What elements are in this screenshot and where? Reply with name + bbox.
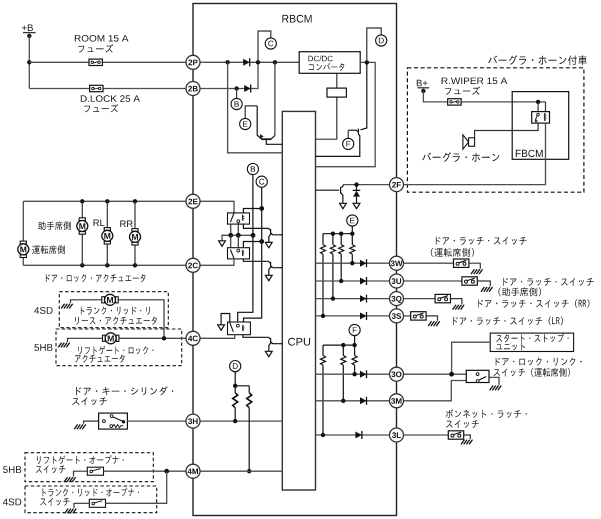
node 4SD join — [162, 336, 166, 340]
wire unlock relay coil top to rail C — [243, 242, 261, 248]
switch liftgate opener — [87, 467, 103, 475]
node opener join — [164, 469, 169, 474]
wire 3U line — [316, 280, 390, 282]
wire B+ to relay — [423, 91, 545, 102]
wire 3W line — [316, 262, 390, 264]
ground — [64, 477, 76, 482]
transistor Q5 (2F driver) — [316, 185, 344, 204]
node E — [240, 118, 251, 129]
fuse R.WIPER 15 A — [448, 99, 461, 105]
diode on 2B rail — [244, 85, 251, 93]
fuse ROOM 15 A — [89, 59, 102, 65]
ground — [481, 287, 493, 292]
wire 2C bus — [23, 264, 186, 266]
ground — [428, 321, 440, 326]
5HB dashed box (liftgate lock actuator) — [56, 329, 182, 366]
connector 3H — [186, 414, 200, 428]
label burglar horn equipped car — [488, 55, 587, 65]
wire 4M to CPU — [200, 470, 282, 472]
resistor pull-up to 3O line — [354, 345, 356, 374]
node 2P-CPU feed junction — [225, 60, 229, 64]
wire 2E bus — [23, 200, 186, 202]
junction 2E bus / RL motor — [105, 199, 109, 203]
ground — [453, 305, 465, 310]
FBCM box — [512, 92, 569, 160]
wire start stop unit to 3O line — [452, 342, 491, 374]
junction 2E bus / RR motor — [133, 199, 137, 203]
transistor Q4 (release driver) — [266, 337, 278, 351]
wire 2F line — [343, 184, 389, 186]
FBCM label — [516, 150, 543, 157]
connector 3O — [390, 367, 404, 381]
ground — [74, 424, 86, 429]
connector 2E — [186, 194, 200, 208]
node E (pull-up) — [347, 215, 358, 226]
wire 3O to switch — [404, 373, 467, 375]
ground — [490, 386, 502, 391]
node D (bottom) — [230, 361, 241, 372]
label door lock actuator — [46, 274, 145, 282]
wire 2C to unlock relay — [200, 259, 234, 265]
ground — [471, 269, 483, 274]
diode 3U — [360, 277, 367, 285]
wire 3O line — [316, 373, 390, 375]
wire lock relay coil top to rail C — [243, 209, 261, 213]
resistor pull-up to 3L line — [322, 345, 324, 435]
wire liftgate opener to 4M — [104, 470, 187, 472]
motor front passenger door lock actuator — [77, 218, 88, 234]
connector 3M — [390, 394, 404, 408]
wire +B down to 2B corner — [28, 36, 30, 89]
fuse D.LOCK 25 A — [90, 85, 103, 91]
wire 3Q to switch — [404, 298, 436, 300]
node diode join on 2P — [256, 60, 260, 64]
junction 2C bus / RL motor — [105, 263, 109, 267]
start stop unit box — [490, 333, 573, 351]
diode on 2P rail — [243, 58, 250, 66]
wire 3H to CPU — [200, 420, 282, 422]
relay release (near 4C) — [228, 322, 251, 335]
node start-stop junction — [449, 372, 454, 377]
wire relay pins from B+ — [537, 102, 539, 112]
diode 3O — [360, 370, 367, 378]
motor RL door lock actuator — [102, 228, 113, 244]
switch door latch (LR) — [411, 312, 426, 320]
wire 3M line — [316, 400, 390, 402]
connector 3L — [390, 428, 404, 442]
connector 3S — [390, 309, 404, 323]
wire left leg — [22, 201, 24, 265]
switch trunk lid opener — [89, 499, 105, 507]
ground (trunk opener) — [74, 503, 89, 508]
connector 2P — [186, 55, 200, 69]
wire relay common bus with ground arrow — [222, 235, 253, 241]
node 2F diode junction — [354, 182, 358, 186]
connector 2C — [186, 258, 200, 272]
node C (relay section) — [256, 176, 267, 187]
relay unlock (lower, mirrored) — [228, 248, 250, 259]
diode 3W — [360, 259, 367, 267]
connector 2F — [390, 178, 404, 192]
connector 2B — [186, 82, 200, 96]
wire 2B rail — [29, 88, 193, 90]
wire lock relay pins to common bus — [231, 223, 239, 236]
wire release relay coil bottom to Q4 — [243, 335, 266, 338]
resistor pull-up to 3M line — [342, 345, 344, 401]
wire unlock relay coil bottom to Q3 — [243, 259, 266, 261]
wire 3L line — [316, 434, 390, 436]
resistor pull-up to 3U line — [340, 234, 342, 281]
motor RR door lock actuator — [130, 229, 141, 245]
RBCM module box — [193, 4, 397, 516]
wire stub to circled B — [236, 89, 238, 99]
diode 3S — [360, 312, 367, 320]
ground — [461, 440, 473, 445]
ground arrow — [265, 275, 272, 280]
wire F pull-up bus — [354, 335, 356, 345]
junction 2E bus / passenger motor — [80, 199, 84, 203]
ground arrow — [265, 351, 272, 356]
horn speaker symbol — [463, 135, 469, 149]
node B — [231, 98, 242, 109]
label burglar horn — [422, 152, 499, 162]
wire DC/DC output — [316, 62, 376, 166]
diode 3Q — [360, 295, 367, 303]
junction 2C bus / passenger motor — [80, 263, 84, 267]
+B terminal — [23, 32, 36, 34]
wire 2P rail — [29, 61, 299, 63]
wire down to pass transistor collector — [274, 62, 276, 135]
wire lock relay coil bottom to Q2 — [243, 224, 266, 228]
wire 3W to switch — [404, 262, 454, 264]
wire 3U to switch — [404, 280, 462, 282]
CPU box — [282, 111, 315, 490]
ground arrow — [265, 242, 272, 247]
wire 2E to lock relay — [200, 201, 234, 213]
wire release relay arm to ground arrow — [221, 314, 230, 325]
connector 3W — [390, 256, 404, 270]
ground (trunk release) — [71, 300, 79, 303]
node +B/2P junction — [27, 60, 31, 64]
burglar horn dashed enclosure — [407, 68, 584, 192]
wire to circled D — [367, 28, 381, 62]
ground arrow — [353, 203, 360, 208]
node B (relay section) — [247, 163, 258, 174]
4SD dashed box (trunk lid opener switch) — [25, 486, 157, 513]
wire 3M riser to switch — [404, 381, 467, 401]
node F (pull-up) — [349, 324, 360, 335]
capacitor box below DC/DC — [327, 88, 346, 97]
DC/DC converter box — [299, 52, 360, 74]
+B label — [22, 25, 33, 32]
ground arrow — [340, 203, 347, 208]
resistor D-3H — [234, 386, 236, 421]
wire 3Q line — [316, 298, 390, 300]
label door key cylinder switch — [76, 386, 173, 395]
connector 3U — [390, 274, 404, 288]
resistor pull-up to 3W line — [351, 234, 353, 264]
motor liftgate lock actuator — [103, 333, 119, 344]
wire 4C to release relay — [200, 335, 235, 339]
ground — [61, 304, 72, 309]
transistor Q6 (DC/DC switch) — [316, 62, 367, 156]
resistor D-4M — [235, 386, 249, 471]
resistor pull-up to 3Q line — [332, 234, 334, 299]
motor driver door lock actuator — [18, 241, 29, 257]
node F (DC/DC) — [347, 130, 349, 139]
4SD dashed box (trunk lid release actuator) — [59, 292, 168, 328]
switch bonnet latch — [448, 431, 463, 439]
ground — [65, 509, 77, 514]
connector 4C — [186, 331, 200, 345]
node B+ junction at relay — [536, 100, 540, 104]
wire 2P to CPU power feed — [228, 62, 283, 153]
node 2B diode junction — [234, 86, 238, 90]
resistor pull-up to 3S line — [322, 234, 324, 316]
diode 3L — [355, 431, 362, 439]
wire 3L to switch — [404, 434, 449, 436]
wire to circled C — [258, 31, 271, 62]
transistor Q1 (CPU power, PNP) — [257, 106, 282, 144]
wire relay switch to horn — [475, 123, 538, 138]
motor trunk lid release actuator — [102, 294, 118, 305]
wire DC/DC bottom to capacitor to CPU — [316, 73, 337, 139]
wire E to Q1 base — [245, 106, 257, 119]
transistor Q2 (lock driver) — [266, 228, 278, 242]
relay lock (upper) — [228, 213, 250, 224]
wire 3S to switch — [404, 315, 411, 317]
switch door key cylinder — [99, 413, 128, 429]
5HB dashed box (liftgate opener switch) — [25, 453, 153, 482]
ground — [58, 343, 69, 348]
wire E pull-up bus — [351, 226, 353, 234]
diode (clamp, pointing up) — [356, 185, 358, 191]
connector 3Q — [390, 292, 404, 306]
ground arrow — [219, 241, 226, 246]
wire relay coil to 2F — [404, 123, 546, 185]
wire unlock relay pins to common bus — [231, 235, 239, 249]
wire D stub — [234, 371, 236, 386]
node D — [376, 35, 387, 46]
CPU label — [288, 338, 310, 346]
wire key cylinder to 3H — [127, 420, 186, 422]
wire 3S line — [316, 315, 390, 317]
switch door latch (driver) — [454, 259, 469, 267]
ground (key cylinder) — [84, 421, 99, 424]
switch door lock link (driver) — [466, 370, 489, 382]
ground (liftgate lock) — [68, 338, 80, 342]
ground (liftgate opener) — [74, 471, 88, 476]
wire motor stems — [82, 201, 135, 265]
wire trunk opener riser to 4M line — [106, 471, 167, 503]
junction 2C bus / RR motor — [133, 263, 137, 267]
ground arrow — [218, 325, 225, 330]
transistor Q3 (unlock driver) — [266, 261, 278, 275]
wire link switch to ground — [489, 377, 499, 385]
node DC/DC output junction — [365, 60, 369, 64]
RBCM label — [282, 15, 311, 23]
node transistor feed junction on 2P — [273, 60, 277, 64]
switch door latch (passenger) — [462, 277, 477, 285]
wire liftgate lock motor to 4C — [79, 337, 103, 339]
node C — [265, 38, 276, 49]
B+ terminal — [418, 87, 430, 89]
wire 2B diode cathode riser — [251, 62, 258, 88]
connector 4M — [186, 464, 200, 478]
diode 3M — [360, 397, 367, 405]
wire trunk release motor — [78, 299, 102, 301]
wire rail from B — [238, 174, 253, 322]
switch door latch (RR) — [435, 294, 450, 302]
wire rail from C — [244, 187, 262, 322]
relay (horn relay in FBCM) — [532, 112, 550, 124]
